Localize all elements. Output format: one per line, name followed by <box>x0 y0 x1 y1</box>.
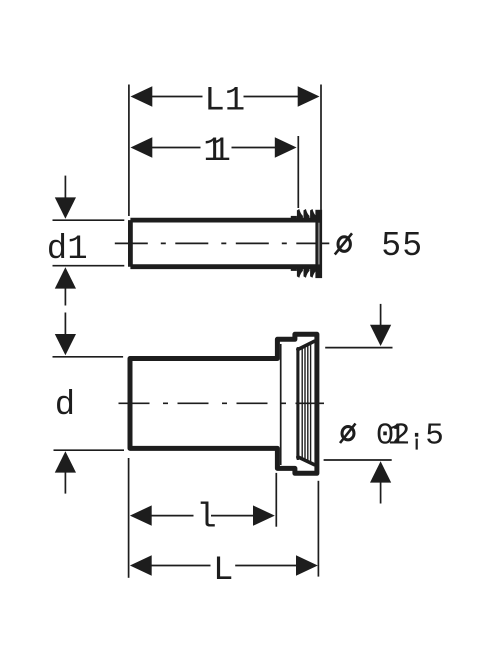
gasket: left thick line <box>296 349 299 459</box>
dimension l1: right arrowhead <box>275 137 297 157</box>
svg-text:5: 5 <box>425 419 444 454</box>
dimension L: line right segment <box>235 565 296 567</box>
diameter symbol for 112,5 <box>342 427 354 440</box>
dimension d1: lower arrowhead (up) <box>55 267 76 288</box>
socket diameter dim: top reference line <box>325 347 392 349</box>
socket diameter dim: upper arrowhead (down) <box>370 325 391 346</box>
svg-text:1: 1 <box>211 133 231 171</box>
dimension l: line right segment <box>211 515 254 517</box>
dimension d: lower arrow stem <box>64 472 66 494</box>
dimension d: upper arrow stem <box>64 313 66 335</box>
gasket: thin line 3 <box>307 345 309 462</box>
dimension L: line left segment <box>152 565 211 567</box>
dimension d1: upper arrow stem <box>64 176 66 198</box>
dimension l: right extension line <box>275 473 277 527</box>
dimension l: right arrowhead <box>253 505 275 525</box>
socket: inner shoulder line <box>280 344 282 465</box>
dimension d1: bottom reference line <box>53 265 125 267</box>
dimension d1: lower arrow stem <box>64 288 66 306</box>
dimension d1: upper arrowhead (down) <box>55 197 76 218</box>
svg-text:l: l <box>196 499 216 537</box>
dimension d: bottom reference line <box>54 449 125 451</box>
svg-text:55: 55 <box>382 225 424 262</box>
gasket: thin line 4 <box>310 343 312 463</box>
dimension L1: left extension line <box>128 85 130 217</box>
socket diameter dim: lower arrowhead (up) <box>370 461 391 482</box>
lower pipe: center line (dash-dot) <box>119 402 325 404</box>
dimension d: upper arrowhead (down) <box>55 334 76 355</box>
dimension L1: right extension line <box>320 85 322 212</box>
dimension L1: line left segment <box>152 96 203 98</box>
upper pipe: body outline <box>130 220 322 267</box>
upper pipe: top serration teeth <box>297 209 316 222</box>
upper pipe: center line (dash-dot) <box>115 242 330 244</box>
socket diameter dim: upper arrow stem <box>380 304 382 326</box>
upper pipe: right end block with slot <box>315 210 322 278</box>
dimension L1: right arrowhead <box>298 86 320 106</box>
upper pipe: bottom serration teeth <box>297 265 316 278</box>
dimension l1: right extension line <box>297 136 299 208</box>
dimension l: left extension line <box>128 458 130 578</box>
dimension l1: line right segment <box>232 147 276 149</box>
dimension l: line left segment <box>152 515 194 517</box>
lower pipe with socket: outline <box>130 334 317 473</box>
svg-text:L: L <box>213 552 233 590</box>
dimension L1: line right segment <box>244 96 299 98</box>
gasket: thin line 2 <box>304 346 306 460</box>
dimension d1: top reference line <box>53 219 125 221</box>
dimension d: lower arrowhead (up) <box>55 451 76 472</box>
socket diameter dim: lower arrow stem <box>380 482 382 504</box>
label comma of 112,5 <box>415 433 418 437</box>
upper pipe: right end slot <box>318 223 320 265</box>
diameter symbol for 55 <box>338 237 350 252</box>
dimension L: right extension line <box>317 481 319 577</box>
gasket: bottom slope <box>298 457 314 465</box>
dimension l1: line left segment <box>152 147 201 149</box>
dimension L1: left arrowhead <box>131 86 153 106</box>
svg-text:L1: L1 <box>204 83 245 121</box>
upper pipe: bottom serration step <box>291 265 297 271</box>
dimension L: right arrowhead <box>296 555 318 575</box>
socket diameter dim: bottom reference line <box>324 459 392 461</box>
upper pipe: top serration step <box>291 216 297 222</box>
gasket: top slope <box>298 341 315 349</box>
dimension d: top reference line <box>53 356 124 358</box>
svg-text:d1: d1 <box>47 231 88 269</box>
svg-text:2: 2 <box>392 419 411 454</box>
dimension l: left arrowhead <box>130 505 152 525</box>
gasket: thin line 1 <box>301 347 303 459</box>
dimension l1: left arrowhead <box>131 137 153 157</box>
svg-text:d: d <box>55 387 75 425</box>
dimension L: left arrowhead <box>130 555 152 575</box>
